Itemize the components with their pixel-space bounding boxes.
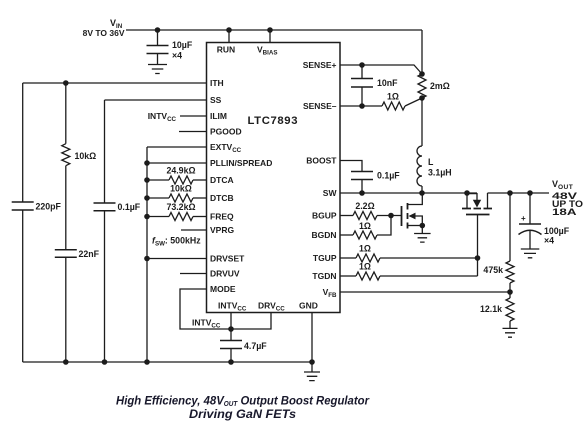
resistor 10k top lead [65, 83, 67, 144]
wire TGDN + resistor R 1ohm [340, 275, 356, 277]
svg-text:10kΩ: 10kΩ [170, 184, 192, 194]
svg-text:2mΩ: 2mΩ [430, 81, 450, 91]
wire gate lead Q1 [477, 215, 479, 277]
svg-text:0.1µF: 0.1µF [118, 202, 141, 212]
svg-text:PGOOD: PGOOD [210, 127, 242, 137]
ground under 12.1k [503, 328, 518, 337]
svg-text:×4: ×4 [172, 51, 182, 61]
junction ITH/10k [63, 80, 69, 86]
svg-text:BOOST: BOOST [306, 156, 337, 166]
svg-text:4.7µF: 4.7µF [244, 341, 267, 351]
svg-text:1Ω: 1Ω [359, 221, 371, 231]
wire bottom ground rail [23, 361, 312, 363]
wire VIN down to sense resistor [421, 30, 423, 74]
wire RUN drop [228, 30, 230, 43]
svg-text:MODE: MODE [210, 284, 236, 294]
wire DRVUV stub [180, 273, 207, 275]
wire PGOOD stub [179, 131, 207, 133]
resistor R 475k [509, 193, 511, 261]
resistor R 10k (DTCB) [144, 195, 150, 201]
wire DRVSET [147, 258, 207, 260]
svg-text:DRVUV: DRVUV [210, 269, 240, 279]
wire GND pin drop [311, 313, 313, 363]
svg-text:+: + [521, 214, 526, 223]
svg-text:0.1µF: 0.1µF [377, 171, 400, 181]
svg-text:SENSE–: SENSE– [303, 101, 337, 111]
svg-text:220pF: 220pF [36, 202, 62, 212]
wire inductor to SW [421, 186, 423, 193]
wire SW rail [340, 192, 477, 194]
wire VOUT rail [488, 192, 550, 194]
svg-text:BGDN: BGDN [311, 230, 336, 240]
svg-text:475k: 475k [483, 265, 503, 275]
svg-text:INTVCC: INTVCC [218, 301, 247, 313]
junction VIN/C-bypass [155, 27, 161, 33]
wire ILIM [180, 115, 207, 117]
svg-text:LTC7893: LTC7893 [248, 115, 298, 127]
resistor R 2.2ohm (BGUP) [340, 215, 353, 217]
svg-text:1Ω: 1Ω [359, 244, 371, 254]
svg-text:1Ω: 1Ω [387, 92, 399, 102]
svg-text:DTCA: DTCA [210, 175, 234, 185]
ground under 100uF [521, 249, 540, 258]
wire DRVCC pin drop [231, 313, 271, 330]
svg-text:EXTVCC: EXTVCC [210, 142, 242, 154]
svg-text:BGUP: BGUP [312, 211, 337, 221]
resistor R 10k [62, 144, 70, 166]
svg-text:2.2Ω: 2.2Ω [355, 201, 374, 211]
resistor R 12.1k [509, 292, 511, 298]
svg-text:1Ω: 1Ω [359, 262, 371, 272]
wire TGUP + resistor R 1ohm [340, 257, 356, 259]
svg-text:fSW: 500kHz: fSW: 500kHz [152, 236, 201, 248]
svg-text:DTCB: DTCB [210, 193, 234, 203]
svg-text:SENSE+: SENSE+ [303, 60, 337, 70]
wire MODE route [180, 289, 231, 329]
capacitor C 220pF [12, 202, 34, 210]
junction INTVCC node [228, 326, 234, 332]
capacitor C 0.1uF (BOOST) [351, 172, 373, 180]
svg-text:18A: 18A [552, 207, 577, 217]
capacitor C 10nF [361, 65, 363, 79]
wire sense to inductor [421, 98, 423, 146]
svg-text:24.9kΩ: 24.9kΩ [166, 166, 195, 176]
svg-text:ILIM: ILIM [210, 111, 227, 121]
ground under Q2 [421, 226, 423, 234]
wire ITH [23, 82, 207, 84]
wire VFB [340, 291, 510, 293]
svg-text:12.1k: 12.1k [480, 304, 502, 314]
svg-text:DRVSET: DRVSET [210, 254, 245, 264]
svg-text:VFB: VFB [323, 287, 337, 299]
wire SS [105, 99, 207, 101]
svg-text:TGDN: TGDN [312, 271, 336, 281]
svg-text:VBIAS: VBIAS [257, 45, 277, 57]
svg-text:ITH: ITH [210, 78, 224, 88]
svg-text:GND: GND [299, 301, 318, 311]
svg-text:FREQ: FREQ [210, 212, 234, 222]
transistor Q1 top GaN FET [466, 193, 468, 209]
svg-text:10nF: 10nF [377, 78, 398, 88]
wire BOOST [340, 161, 362, 172]
svg-text:VPRG: VPRG [210, 225, 234, 235]
wire VPRG stub [181, 229, 207, 231]
capacitor C 22nF [55, 250, 77, 258]
wire 220pF top lead [22, 83, 24, 202]
junction BGUP/BGDN [388, 213, 394, 219]
capacitor C 100uF x4 electrolytic [529, 193, 531, 224]
svg-text:SW: SW [323, 188, 338, 198]
wire SENSE+ [340, 65, 422, 74]
svg-text:PLLIN/SPREAD: PLLIN/SPREAD [210, 158, 272, 168]
wire VBIAS drop [269, 30, 271, 43]
wire left bus vertical [146, 147, 148, 362]
ground under 10uF [148, 65, 167, 74]
op-amp / IC U1 LTC7893 box [207, 43, 341, 313]
junction VIN/RUN [226, 27, 232, 33]
svg-text:L: L [428, 157, 434, 167]
svg-text:10kΩ: 10kΩ [75, 151, 97, 161]
resistor R 24.9k (DTCA) [144, 177, 150, 183]
wire INTVCC pin drop [230, 313, 232, 341]
svg-text:TGUP: TGUP [313, 253, 337, 263]
svg-text:RUN: RUN [217, 45, 235, 55]
junction VIN/VBIAS [267, 27, 273, 33]
capacitor 10uF x4 [157, 30, 159, 46]
inductor L 3.1uH [417, 146, 422, 186]
svg-text:100µF: 100µF [544, 226, 570, 236]
svg-text:DRVCC: DRVCC [258, 301, 285, 313]
capacitor C 4.7uF [220, 341, 242, 349]
svg-text:10µF: 10µF [172, 40, 193, 50]
svg-text:73.2kΩ: 73.2kΩ [166, 202, 195, 212]
resistor R 2mohm sense [419, 71, 425, 77]
svg-text:VOUT: VOUT [552, 179, 573, 191]
wire 0.1uF top lead [104, 100, 106, 203]
wire 220pF bottom lead [22, 210, 24, 362]
svg-text:Driving GaN FETs: Driving GaN FETs [189, 407, 296, 421]
wire VIN rail [126, 29, 422, 31]
svg-text:INTVCC: INTVCC [192, 318, 221, 330]
wire 0.1uF bottom lead [104, 211, 106, 362]
wire EXTVCC [147, 146, 207, 148]
wire 22nF bottom lead [65, 257, 67, 362]
svg-text:INTVCC: INTVCC [148, 111, 177, 123]
wire PLLIN/SPREAD [147, 162, 207, 164]
capacitor C 0.1uF (SS) [94, 203, 116, 211]
wire 10k to 22nF [65, 166, 67, 250]
svg-text:High Efficiency, 48VOUT Output: High Efficiency, 48VOUT Output Boost Reg… [116, 394, 370, 409]
svg-text:8V TO 36V: 8V TO 36V [83, 28, 125, 38]
resistor R 73.2k (FREQ) [144, 214, 150, 220]
svg-text:SS: SS [210, 95, 222, 105]
resistor R 1ohm (BGDN) [340, 234, 353, 236]
wire SENSE- + resistor R 1ohm [340, 105, 382, 107]
ground main [311, 362, 313, 372]
svg-text:×4: ×4 [544, 236, 554, 246]
svg-text:22nF: 22nF [79, 249, 100, 259]
transistor Q2 bottom GaN FET [401, 206, 403, 226]
svg-text:3.1µH: 3.1µH [428, 168, 452, 178]
